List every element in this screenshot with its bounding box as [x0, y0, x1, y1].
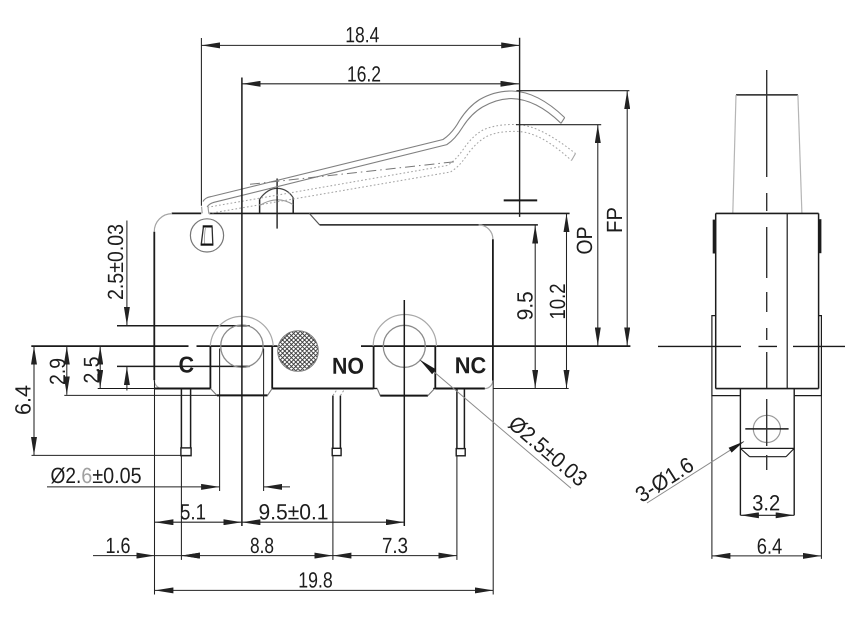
side view: lower bracket left: [712, 316, 740, 396]
side view: vertical centerline: [766, 70, 768, 470]
side view: lower bracket right: [795, 316, 822, 396]
bottom extension lines: [155, 380, 494, 594]
dimension OP: [597, 125, 599, 346]
leader 3-dia1.6: [647, 441, 744, 503]
side view: horizontal centerline: [658, 345, 845, 347]
side view: extension lines 6.4: [711, 396, 713, 559]
dimension 6.4 (left): [33, 346, 35, 455]
terminal pin C: [181, 389, 191, 456]
mounting hole C with boss: [210, 316, 273, 367]
dimension 6.4 (side): [712, 555, 822, 557]
centerline C hole vertical: [241, 78, 243, 527]
lever arm, operating position (phantom): [208, 124, 576, 213]
lever centerline dash-dot: [250, 162, 455, 185]
dimension 18.4: [201, 38, 519, 217]
dimension 2.5 (left): [99, 346, 101, 388]
dimension 9.5 (right): [534, 225, 536, 388]
dimension 1.6: [93, 555, 200, 557]
dimension 10.2 (right): [566, 214, 568, 389]
terminal label NO: [333, 358, 363, 374]
dimension 16.2: [242, 83, 519, 85]
centerline NO hole vertical: [403, 300, 405, 526]
horizontal centerline through mounting holes: [31, 345, 630, 347]
side view: metal clips: [713, 220, 716, 254]
terminal label NC: [456, 357, 485, 373]
mounting hole NO/NC with boss: [373, 315, 436, 368]
OP extension line: [516, 124, 601, 126]
right bottom extension line: [493, 388, 568, 390]
body bottom contour with terminal blocks: [98, 346, 485, 396]
side view: plunger: [733, 95, 802, 213]
dimension 9.5+/-0.1: [242, 521, 405, 523]
dimension 2.9 (left): [66, 346, 68, 395]
side view: terminal hole dia 1.6: [753, 415, 780, 442]
dimension 7.3: [333, 555, 457, 557]
dimension FP: [626, 91, 628, 346]
terminal pin NC: [456, 389, 465, 456]
leader dia 2.5+/-0.03 (to NO/NC hole): [420, 360, 571, 489]
terminal pin NO: [332, 389, 344, 455]
dimension dia 2.6+/-0.05: [47, 349, 290, 492]
pivot hole with lever slot (top-left of body): [190, 219, 223, 252]
dimension 19.8: [155, 589, 494, 591]
side view: body: [716, 213, 819, 388]
FP extension line: [516, 90, 629, 92]
switch body outline (front view): [154, 213, 569, 388]
common terminal band (2.5 +/-0.03 feature): [117, 326, 250, 367]
terminal label C: [179, 356, 193, 372]
dimension 8.8: [181, 555, 333, 557]
dimension 5.1: [155, 521, 242, 523]
hatched circle: [228, 321, 367, 381]
side view: terminal tab: [740, 389, 794, 516]
lever tip cross mark: [504, 199, 538, 201]
lever arm, free position (solid): [202, 91, 565, 213]
plunger (front view): [260, 179, 294, 229]
dimension 2.5+/-0.03 (left, leader with arrows): [126, 221, 128, 391]
dimension 3.2 (side): [740, 514, 794, 516]
